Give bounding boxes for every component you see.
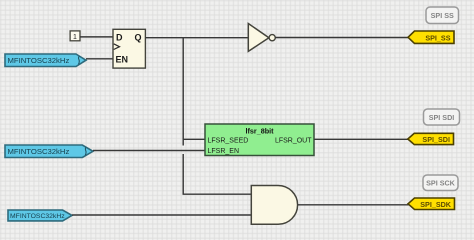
svg-text:SPI SS: SPI SS [431,11,454,20]
module lfsr_8bit [205,124,314,156]
svg-text:SPI SCK: SPI SCK [426,179,456,188]
wire: branch to AND gate input [183,193,252,195]
D flip-flop [113,29,145,68]
svg-text:MFINTOSC32kHz: MFINTOSC32kHz [8,56,70,65]
svg-text:LFSR_EN: LFSR_EN [208,148,240,155]
net label SPI SCK [423,175,458,191]
svg-text:LFSR_SEED: LFSR_SEED [208,138,249,145]
svg-text:SPI_SDK: SPI_SDK [420,200,452,209]
AND gate [251,186,297,225]
output flag SPI_SDK [408,198,455,210]
wire: AND gate to SPI_SDK flag [298,204,409,206]
svg-text:SPI_SDI: SPI_SDI [422,135,450,144]
wire: Q branch vertical (down from Q net, with hop gap at EN wire) [182,38,184,195]
wire: constant 1 to D input [80,36,113,38]
svg-text:SPI_SS: SPI_SS [425,33,450,42]
svg-text:LFSR_OUT: LFSR_OUT [275,138,312,145]
svg-text:Q: Q [135,33,142,43]
wire: Q output to inverter [145,37,248,39]
input flag MFINTOSC32kHz (bottom) [8,210,72,221]
wire: MFINTOSC32kHz to AND gate input [72,214,251,216]
input flag MFINTOSC32kHz (middle) [5,145,93,158]
wire: inverter to SPI_SS flag [275,37,409,39]
inverter [248,24,275,52]
svg-text:SPI SDI: SPI SDI [429,113,455,122]
svg-text:lfsr_8bit: lfsr_8bit [246,127,275,136]
svg-text:EN: EN [116,55,129,65]
wire: MFINTOSC32kHz to EN input [86,58,113,60]
wire: branch to LFSR_SEED [183,138,205,140]
net label SPI SS [426,7,459,24]
svg-text:D: D [116,33,123,43]
net label SPI SDI [424,109,460,125]
constant 1 [70,31,80,41]
svg-text:MFINTOSC32kHz: MFINTOSC32kHz [8,147,70,156]
input flag MFINTOSC32kHz (top) [5,54,86,67]
wire: MFINTOSC32kHz to LFSR_EN [93,150,205,152]
output flag SPI_SS [408,31,454,43]
output flag SPI_SDI [408,133,454,144]
wire: LFSR_OUT to SPI_SDI flag [314,138,409,140]
svg-text:MFINTOSC32kHz: MFINTOSC32kHz [10,213,65,220]
svg-text:1: 1 [73,34,77,41]
